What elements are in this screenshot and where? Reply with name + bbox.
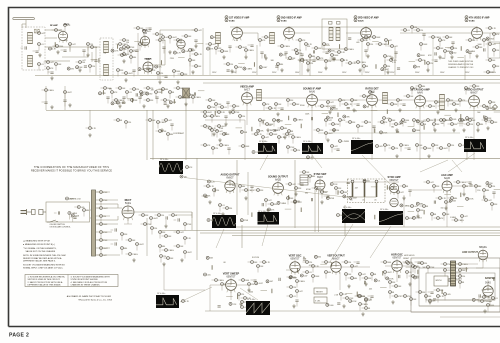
band4 field capacitor — [337, 303, 340, 304]
svg-text:150: 150 — [492, 186, 495, 188]
power area extra parts stub wire — [121, 250, 123, 255]
vert output parts stub wire — [362, 277, 365, 279]
1st IF stage parts stub wire — [206, 43, 209, 45]
svg-text:.0047: .0047 — [172, 37, 177, 39]
mixer-oscillator stage stub wire — [89, 68, 91, 73]
waveform photo P7 sync pulse — [258, 212, 280, 225]
svg-text:1 MEG: 1 MEG — [223, 145, 229, 147]
hor osc parts stub wire — [406, 274, 408, 279]
transformer secondary taps stub wire — [97, 223, 100, 225]
agc amp parts part callout — [491, 203, 499, 206]
4th IF input parts part callout — [417, 29, 424, 32]
wire 1st IF plate link — [242, 33, 258, 40]
video detector load row stub wire — [432, 147, 434, 152]
audio out parts part callout — [213, 189, 220, 192]
4th IF input parts ground — [450, 55, 453, 59]
1st audio parts stub wire — [438, 105, 441, 107]
svg-text:SOCKET VOLTAGES MEASURED WITH: SOCKET VOLTAGES MEASURED WITH NO — [23, 264, 65, 267]
ratio det parts part callout — [397, 99, 403, 102]
wire rectifier heater — [124, 218, 132, 224]
tuner part callout — [38, 43, 44, 46]
IF link parts part callout — [189, 59, 197, 62]
bottom misc parts stub wire — [410, 301, 412, 306]
IF band field capacitor — [227, 70, 230, 71]
1st IF stage parts stub wire — [236, 46, 239, 48]
svg-text:1 MEG: 1 MEG — [360, 62, 366, 64]
svg-text:680: 680 — [422, 86, 425, 88]
1st IF stage parts ground — [244, 55, 247, 59]
RF amplifier stage part callout — [55, 29, 62, 32]
4.5MC trap coil — [183, 88, 190, 98]
RF amplifier stage ground — [56, 50, 59, 54]
mixer left parts capacitor — [50, 72, 53, 73]
tube V7 4th video if amp — [472, 26, 483, 41]
AGC filter parts stub wire — [192, 29, 195, 31]
video det field resistor callout — [169, 101, 177, 104]
svg-text:VALUE NOT ON THE CHASSIS: VALUE NOT ON THE CHASSIS — [26, 250, 56, 253]
4th IF input parts stub wire — [443, 36, 446, 38]
cage field capacitor callout — [429, 299, 437, 302]
agc line parts part callout — [317, 129, 325, 132]
svg-text:RECT: RECT — [125, 199, 132, 202]
svg-text:680: 680 — [391, 126, 394, 128]
hor osc parts stub wire — [389, 294, 391, 299]
svg-text:150: 150 — [367, 181, 370, 183]
video detector load row stub wire — [421, 147, 424, 149]
flyback taps stub wire — [434, 289, 437, 291]
svg-text:.047: .047 — [41, 33, 45, 35]
video detector load row part callout — [287, 146, 296, 149]
video det line parts stub wire — [144, 99, 147, 101]
svg-text:120: 120 — [167, 100, 170, 102]
video det line parts part callout — [147, 87, 155, 90]
svg-text:270: 270 — [298, 50, 301, 52]
power area extra parts stub wire — [136, 246, 138, 251]
top band field connecting wire — [197, 43, 204, 45]
agc amp parts stub wire — [452, 219, 455, 221]
sync amp parts capacitor — [408, 190, 411, 191]
svg-text:HOR OUTPUT: HOR OUTPUT — [462, 251, 478, 254]
svg-text:1 MEG: 1 MEG — [248, 190, 254, 192]
ratio det parts capacitor — [402, 104, 405, 105]
svg-text:15 V. 60∿: 15 V. 60∿ — [247, 298, 256, 301]
mixer left parts stub wire — [55, 66, 57, 71]
1st IF stage parts part callout — [221, 50, 229, 53]
1st audio parts part callout — [435, 101, 442, 104]
IF band field component body — [460, 46, 462, 51]
IF band field capacitor — [265, 54, 266, 57]
svg-text:120: 120 — [410, 263, 413, 265]
video det field capacitor — [194, 92, 195, 95]
2nd IF screen parts part callout — [390, 59, 397, 62]
svg-text:150: 150 — [161, 215, 164, 217]
agc amp parts stub wire — [431, 216, 433, 221]
IF link parts part callout — [195, 65, 203, 68]
third IF bottom parts part callout — [349, 62, 357, 65]
vert sweep parts part callout — [242, 279, 250, 282]
video IF stage 4 tube callout — [465, 19, 468, 22]
tube V16 sync amplifier — [387, 176, 400, 195]
4th IF plate parts part callout — [489, 59, 497, 62]
sound trap parts part callout — [331, 54, 340, 57]
band2 lower row part callout — [365, 121, 372, 124]
audio takeoff callout — [339, 140, 350, 143]
svg-text:1000: 1000 — [361, 296, 365, 298]
4th IF plate parts part callout — [493, 65, 500, 68]
IF band field resistor callout — [279, 53, 286, 56]
vert sweep parts stub wire — [251, 279, 254, 281]
band2 field resistor callout — [486, 107, 493, 110]
IF band field component body — [424, 60, 426, 64]
video amp grid parts stub wire — [171, 126, 173, 131]
svg-text:.047: .047 — [168, 120, 172, 122]
svg-text:6CB6: 6CB6 — [229, 20, 235, 22]
video det line parts ground — [142, 104, 145, 108]
wire B+ bus top — [35, 75, 500, 77]
svg-text:1 MEG: 1 MEG — [299, 281, 305, 283]
video detector load row capacitor — [336, 149, 339, 150]
mixer-oscillator stage part callout — [89, 65, 96, 68]
video amp parts part callout — [275, 103, 283, 106]
wire photo leader R6 — [216, 229, 224, 248]
band2 field capacitor callout — [207, 106, 216, 109]
oscillator parts stub wire — [120, 39, 123, 41]
left bias divider part callout — [45, 89, 55, 92]
RF amplifier stage capacitor — [82, 50, 85, 51]
terminal box callout — [349, 196, 357, 199]
sync sep parts stub wire — [321, 194, 323, 199]
4th IF plate parts part callout — [493, 33, 500, 36]
svg-text:120: 120 — [160, 73, 163, 75]
AGC filter parts stub wire — [178, 73, 181, 75]
agc amp parts stub wire — [491, 206, 493, 211]
transformer secondary taps stub wire — [100, 234, 102, 239]
band2 field resistor callout — [449, 118, 456, 121]
sync sep parts stub wire — [309, 178, 311, 183]
IF band field connecting wire — [287, 59, 294, 61]
video amp low parts part callout — [211, 115, 221, 118]
rectifier output filter stub wire — [139, 214, 142, 216]
line filter parts capacitor — [58, 211, 59, 214]
band4 field component body — [356, 292, 358, 297]
3rd IF stage parts part callout — [391, 45, 398, 48]
wire audio B+ drops — [247, 103, 474, 160]
line filter box — [46, 202, 90, 222]
4th IF bottom parts stub wire — [416, 59, 419, 61]
video det line parts stub wire — [159, 88, 162, 90]
svg-text:150: 150 — [126, 40, 129, 42]
RF amplifier stage part callout — [56, 45, 64, 48]
band2 lower row stub wire — [418, 123, 421, 125]
flyback taps part callout — [444, 263, 453, 266]
rectifier output filter stub wire — [159, 248, 161, 253]
svg-text:120: 120 — [251, 284, 254, 286]
IF band field capacitor callout — [417, 54, 425, 57]
4th IF input parts capacitor — [451, 42, 454, 43]
IF link parts part callout — [189, 49, 197, 52]
vert output parts stub wire — [359, 276, 361, 281]
svg-text:.005: .005 — [310, 157, 314, 159]
left bias divider ground — [50, 105, 53, 109]
3rd IF stage parts stub wire — [388, 45, 391, 47]
1st IF stage parts stub wire — [259, 42, 261, 47]
waveform photo P3 video amp plate — [302, 143, 323, 154]
ratio det parts coil — [383, 93, 388, 104]
photo P3 reference callout — [307, 156, 314, 159]
video amp grid parts stub wire — [216, 133, 218, 138]
video amp parts ground — [283, 135, 286, 139]
svg-text:.047: .047 — [388, 40, 392, 42]
1st IF stage parts stub wire — [218, 50, 221, 52]
bottom misc parts stub wire — [365, 301, 367, 306]
2nd IF stage parts stub wire — [301, 56, 303, 61]
sound IF parts part callout — [325, 119, 332, 122]
agc amp parts stub wire — [434, 217, 437, 219]
band2 lower row stub wire — [477, 126, 479, 131]
video amp parts part callout — [281, 127, 288, 130]
wire band3 bus3 — [200, 232, 500, 234]
transformer secondary taps part callout — [100, 191, 109, 194]
vert output parts part callout — [325, 271, 332, 274]
vert output parts stub wire — [322, 261, 325, 263]
band2 field component body — [386, 109, 388, 114]
svg-text:.047: .047 — [299, 291, 303, 293]
vert output parts stub wire — [371, 276, 373, 281]
audio out parts part callout — [239, 185, 246, 188]
2nd IF screen parts stub wire — [307, 65, 309, 70]
waveform photo P6 audio sine — [212, 215, 236, 228]
svg-text:150: 150 — [92, 66, 95, 68]
vert output parts ground — [364, 282, 367, 286]
agc line parts stub wire — [330, 129, 333, 131]
sound out parts part callout — [287, 197, 295, 200]
2nd IF stage parts part callout — [295, 49, 302, 52]
svg-text:4TH VIDEO IF AMP: 4TH VIDEO IF AMP — [469, 16, 490, 19]
svg-text:.047: .047 — [354, 188, 358, 190]
band4 field capacitor callout — [386, 277, 395, 280]
svg-text:DIFFERENT VALUE IN THIS STAGE.: DIFFERENT VALUE IN THIS STAGE. — [28, 283, 62, 286]
video IF stage 1 tube callout — [225, 19, 228, 22]
ratio det parts stub wire — [388, 103, 391, 105]
video amp grid parts ground — [160, 128, 163, 132]
sound trap trimmer B — [337, 22, 341, 25]
sound IF parts stub wire — [318, 105, 321, 107]
video amp low parts stub wire — [211, 118, 213, 123]
sync sep parts stub wire — [335, 190, 337, 195]
band3 field connecting wire — [285, 208, 292, 210]
svg-text:680: 680 — [162, 246, 165, 248]
sound out parts stub wire — [295, 190, 297, 195]
band3 field connecting wire — [371, 186, 378, 188]
band2 field resistor callout — [326, 116, 334, 119]
power area extra parts stub wire — [151, 230, 153, 235]
IF link parts stub wire — [189, 62, 191, 67]
ratio det parts part callout — [391, 103, 399, 106]
video IF stage 3 tube callout — [354, 19, 357, 22]
svg-text:.0047: .0047 — [443, 148, 448, 150]
video det field resistor callout — [99, 92, 107, 95]
4th IF input parts stub wire — [448, 47, 451, 49]
top band field component body — [117, 44, 119, 49]
band3 field component body — [460, 193, 462, 198]
IF band field connecting wire — [445, 47, 452, 49]
band4 field component body — [237, 295, 239, 300]
band2 lower row stub wire — [448, 123, 451, 125]
IF band field capacitor callout — [259, 66, 267, 69]
svg-text:1 MEG: 1 MEG — [348, 49, 354, 51]
vert osc parts stub wire — [296, 302, 298, 307]
tube V24 damper — [483, 283, 493, 299]
damper parts ground — [483, 309, 486, 313]
video amp low parts stub wire — [215, 125, 218, 127]
svg-text:.005: .005 — [232, 185, 236, 187]
video detector load row stub wire — [405, 147, 408, 149]
agc line parts stub wire — [325, 135, 327, 140]
video amp grid parts part callout — [125, 121, 132, 124]
svg-text:.047: .047 — [180, 232, 184, 234]
photo P2 reference callout — [252, 151, 261, 154]
3rd IF stage parts stub wire — [363, 68, 365, 73]
video det field connecting wire — [156, 89, 163, 91]
band3 field capacitor — [469, 185, 472, 186]
ratio det parts ground — [398, 108, 401, 112]
svg-text:.047: .047 — [414, 206, 418, 208]
1st audio parts stub wire — [411, 90, 413, 95]
mixer output parts part callout — [169, 36, 177, 39]
cage field component body — [417, 270, 419, 275]
wire tuner to RF amp — [45, 30, 100, 61]
band2 field resistor callout — [400, 121, 407, 124]
vert output parts part callout — [345, 273, 353, 276]
svg-text:680: 680 — [416, 120, 419, 122]
video detector load row part callout — [204, 144, 212, 147]
transformer secondary taps stub wire — [100, 202, 102, 207]
4th IF input parts stub wire — [434, 47, 437, 49]
vert sweep parts part callout — [244, 297, 252, 300]
video detector load row stub wire — [334, 148, 337, 150]
2nd IF stage parts part callout — [309, 55, 316, 58]
agc amp parts part callout — [475, 185, 483, 188]
AGC filter parts capacitor — [164, 76, 167, 77]
wire sync sep drops — [248, 172, 319, 232]
ratio det parts part callout — [407, 95, 415, 98]
video detector load row part callout — [392, 147, 399, 150]
video det line parts stub wire — [156, 99, 158, 104]
svg-text:.047: .047 — [488, 120, 492, 122]
hor afc parts stub wire — [416, 291, 419, 293]
photo P8 reference callout — [337, 214, 345, 217]
oscillator parts part callout — [123, 39, 130, 42]
sound IF parts stub wire — [354, 103, 357, 105]
power area extra parts part callout — [121, 233, 129, 236]
svg-text:6AL5: 6AL5 — [369, 90, 375, 93]
vert output parts stub wire — [354, 261, 357, 263]
third IF bottom parts stub wire — [314, 57, 317, 59]
band2 field connecting wire — [444, 114, 451, 116]
bottom misc parts stub wire — [489, 302, 491, 307]
wire photo leader P11 — [240, 288, 258, 300]
svg-text:1 MEG: 1 MEG — [460, 182, 466, 184]
svg-text:.047: .047 — [362, 274, 366, 276]
dc restorer parts stub wire — [262, 139, 264, 144]
power area extra parts capacitor — [115, 242, 116, 245]
hor osc parts stub wire — [415, 261, 418, 263]
1st audio parts part callout — [453, 103, 461, 106]
video amp low parts stub wire — [201, 111, 204, 113]
svg-text:1 MEG: 1 MEG — [362, 304, 368, 306]
vert sweep parts part callout — [215, 279, 225, 282]
svg-text:.047: .047 — [328, 120, 332, 122]
transformer secondary taps part callout — [100, 223, 109, 226]
band2 lower row stub wire — [459, 122, 461, 127]
photo P9 reference callout — [406, 217, 415, 220]
svg-text:15 V. 60∿: 15 V. 60∿ — [303, 140, 312, 143]
svg-text:120: 120 — [414, 27, 417, 29]
video detector load row part callout — [424, 147, 433, 150]
IF band field capacitor — [397, 68, 400, 69]
wire band2 divider — [150, 157, 500, 159]
tuner part callout — [38, 32, 45, 35]
2nd IF screen parts stub wire — [298, 59, 301, 61]
agc amp parts ground — [416, 214, 419, 218]
svg-text:150: 150 — [462, 276, 465, 278]
damper parts capacitor — [479, 294, 480, 297]
audio output parts part callout — [473, 85, 481, 88]
terminal box bottom bus — [353, 197, 377, 203]
video amp parts stub wire — [278, 107, 281, 109]
2nd IF stage parts capacitor — [300, 54, 303, 55]
sound out parts stub wire — [287, 200, 289, 205]
band4 field connecting wire — [346, 293, 353, 295]
svg-text:THIS PLATE LEAD MUST BE: THIS PLATE LEAD MUST BE — [448, 60, 474, 63]
svg-text:.047: .047 — [198, 30, 202, 32]
transformer secondary taps stub wire — [100, 218, 102, 223]
trap parts part callout — [179, 96, 187, 99]
2nd IF stage parts stub wire — [285, 54, 287, 59]
2nd IF screen parts stub wire — [387, 59, 390, 61]
3rd IF stage parts part callout — [385, 39, 392, 42]
svg-text:68: 68 — [426, 206, 428, 208]
wire 4th IF link — [400, 32, 500, 34]
svg-text:255V: 255V — [365, 72, 370, 74]
vert osc parts stub wire — [303, 261, 306, 263]
svg-text:1 MEG: 1 MEG — [168, 250, 174, 252]
svg-text:680: 680 — [124, 248, 127, 250]
svg-text:680: 680 — [328, 272, 331, 274]
video detector load row stub wire — [400, 147, 402, 152]
wire deflection links — [300, 266, 411, 290]
RF amplifier stage stub wire — [61, 49, 64, 51]
wire vertical junction x186 — [185, 96, 187, 160]
video IF stage 1 part callout — [225, 16, 228, 19]
band2 lower row ground — [476, 128, 479, 132]
cage field connecting wire — [486, 288, 493, 290]
svg-text:.01: .01 — [407, 30, 410, 32]
tuner stub wire — [35, 32, 38, 34]
wire bottom bus1 — [205, 310, 411, 312]
video amp parts stub wire — [218, 106, 221, 108]
svg-text:.005: .005 — [379, 146, 383, 148]
video det field capacitor — [164, 103, 167, 104]
svg-text:.047: .047 — [394, 46, 398, 48]
phase det parts ground — [361, 312, 364, 316]
svg-text:1 MEG: 1 MEG — [295, 137, 301, 139]
video amp grid parts stub wire — [220, 133, 223, 135]
svg-text:.047: .047 — [400, 192, 404, 194]
band4 field connecting wire — [261, 290, 268, 292]
video amp grid parts part callout — [223, 133, 231, 136]
vert sweep parts stub wire — [221, 286, 223, 291]
